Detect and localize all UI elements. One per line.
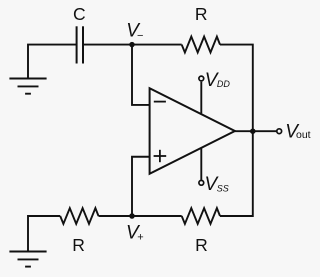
svg-text:−: − [137,30,143,42]
Vout terminal (open circle) [277,129,282,134]
svg-text:R: R [72,235,85,255]
op-amp U1 [150,88,235,174]
svg-text:SS: SS [217,183,229,193]
wire: V+ node up and into non-inverting input [132,157,150,216]
resistor R1 (top) [182,37,220,53]
wire: op-amp output to Vout terminal [235,130,277,132]
node V- (dot) [129,42,135,48]
svg-text:C: C [73,4,86,24]
VSS terminal (open circle) [199,180,204,185]
wire: VSS stub [200,148,202,180]
VDD terminal (open circle) [199,76,204,81]
ground (bottom-left) [9,252,46,267]
wire: bottom-left ground to resistor R2 [28,216,60,252]
node V+ (dot) [129,213,135,219]
wire: R2 to R3 through V+ node [99,215,182,217]
svg-text:DD: DD [217,79,230,89]
capacitor C [77,26,83,63]
output junction node (dot) [250,128,256,134]
op-amp minus marker [154,101,166,103]
svg-text:out: out [296,129,311,141]
op-amp plus marker [154,150,167,162]
wire: R1 to right rail, down, and bottom to R3 [220,45,253,216]
resistor R3 (bottom-right) [182,208,220,224]
wire: V- node down and into inverting input [132,45,150,105]
wire: VDD stub [200,82,202,114]
svg-text:R: R [195,235,208,255]
svg-text:R: R [195,4,208,24]
resistor R2 (bottom-left) [60,208,98,224]
wire: top-left ground to capacitor [28,45,77,79]
wire: capacitor to resistor R (top) [83,44,182,46]
svg-text:+: + [137,232,143,244]
ground (top-left) [9,79,46,94]
